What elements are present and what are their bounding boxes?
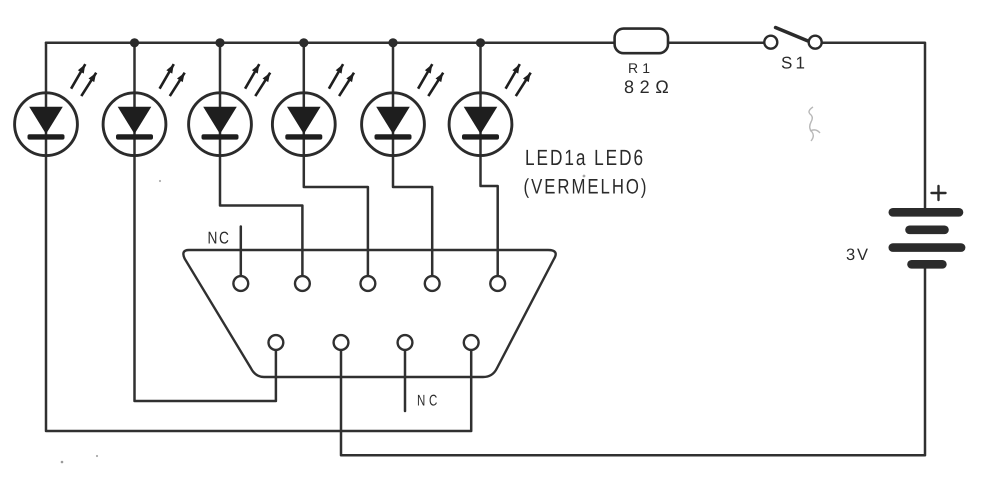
svg-text:(VERMELHO): (VERMELHO) [524,176,649,199]
svg-text:NC: NC [417,393,441,410]
svg-text:NC: NC [208,229,231,248]
svg-text:LED1a LED6: LED1a LED6 [525,145,645,170]
svg-text:3V: 3V [846,246,868,264]
svg-text:82Ω: 82Ω [624,77,669,97]
